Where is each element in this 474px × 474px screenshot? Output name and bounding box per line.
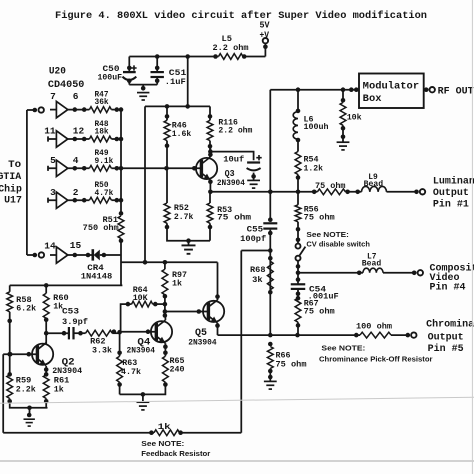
wire Q2 base <box>3 353 37 355</box>
svg-text:Output: Output <box>428 333 464 344</box>
svg-text:6.2k: 6.2k <box>16 304 36 314</box>
svg-text:Feedback Resistor: Feedback Resistor <box>141 449 210 458</box>
ground below 10uf <box>247 179 260 181</box>
wire Q5 emitter to chrominance row <box>217 323 219 335</box>
svg-text:2N3904: 2N3904 <box>127 345 156 355</box>
wire to summing bus <box>111 109 121 111</box>
wire rail drop to second rail <box>187 57 189 107</box>
wire left loop down to CR4 node <box>144 106 146 262</box>
svg-text:7: 7 <box>50 91 56 102</box>
wire chrominance row <box>218 334 361 336</box>
svg-text:R68: R68 <box>250 265 266 275</box>
svg-text:75 ohm: 75 ohm <box>217 213 251 223</box>
svg-text:18k: 18k <box>95 127 109 137</box>
wire Q4 collector <box>164 316 166 321</box>
svg-text:100 ohm: 100 ohm <box>356 321 392 331</box>
node RF OUT terminal <box>424 89 429 91</box>
wire buffer output row 6 <box>68 109 90 111</box>
svg-text:10k: 10k <box>347 113 362 123</box>
svg-text:Modulator: Modulator <box>363 80 419 92</box>
wire feedback tap <box>268 248 273 253</box>
wire to summing bus <box>111 199 121 201</box>
wire Q2 stage top rail <box>10 284 123 286</box>
svg-text:Chrominance Pick-Off Resistor: Chrominance Pick-Off Resistor <box>319 354 433 363</box>
wire to luminance terminal pin 1 <box>387 191 419 193</box>
svg-text:Bead: Bead <box>362 258 382 268</box>
wire to summing bus <box>111 167 121 169</box>
svg-text:15: 15 <box>70 240 82 251</box>
svg-text:U17: U17 <box>4 195 22 206</box>
svg-text:5: 5 <box>50 155 56 166</box>
wire node CR4/R97 row <box>121 261 217 263</box>
wire down to Q5 collector <box>217 262 219 300</box>
svg-text:Luminance: Luminance <box>433 176 474 188</box>
wire luminance row <box>210 191 317 193</box>
wire input stub pin 5 <box>48 166 56 171</box>
svg-text:Output: Output <box>433 188 469 199</box>
svg-text:2N3904: 2N3904 <box>188 338 217 348</box>
wire diode to bus node <box>100 254 122 256</box>
svg-text:75 ohm: 75 ohm <box>304 307 335 317</box>
ground below R59 R61 <box>27 406 32 411</box>
wire composite video row <box>296 271 301 276</box>
diode CR4 1N4148 <box>94 250 100 261</box>
wire to composite terminal pin 4 <box>383 272 416 274</box>
svg-text:See NOTE:: See NOTE: <box>141 439 184 448</box>
ground below 10k <box>337 141 350 143</box>
svg-text:11: 11 <box>44 126 56 137</box>
svg-text:Chrominance: Chrominance <box>426 319 474 331</box>
ground below R66 <box>264 380 277 382</box>
svg-text:750 ohm: 750 ohm <box>83 223 119 233</box>
svg-text:12: 12 <box>73 126 85 137</box>
svg-text:100uF: 100uF <box>98 72 123 82</box>
svg-text:Box: Box <box>363 94 382 105</box>
svg-text:2: 2 <box>73 187 79 198</box>
svg-text:2.2 ohm: 2.2 ohm <box>218 126 252 136</box>
svg-text:1k: 1k <box>54 385 64 395</box>
svg-text:6: 6 <box>73 91 79 102</box>
svg-text:See NOTE:: See NOTE: <box>306 230 349 239</box>
ground below C50 C51 <box>142 85 144 90</box>
svg-text:C53: C53 <box>62 306 79 316</box>
svg-text:4: 4 <box>73 155 79 166</box>
svg-text:75 ohm: 75 ohm <box>304 213 335 223</box>
svg-text:See NOTE:: See NOTE: <box>321 344 365 353</box>
svg-text:3.3k: 3.3k <box>92 346 112 356</box>
svg-text:14: 14 <box>44 241 56 252</box>
wire GTIA input rail <box>26 110 28 255</box>
svg-text:2N3904: 2N3904 <box>217 178 245 188</box>
svg-text:240: 240 <box>170 364 185 374</box>
svg-text:Chip: Chip <box>0 184 22 195</box>
svg-text:2.2 ohm: 2.2 ohm <box>213 43 249 53</box>
svg-text:Pin #4: Pin #4 <box>430 282 466 294</box>
svg-text:Pin #5: Pin #5 <box>428 343 464 355</box>
wire second rail <box>145 105 210 107</box>
wire Q3 collector <box>209 146 211 157</box>
wire from 5V terminal to rail <box>264 43 266 56</box>
svg-text:100uh: 100uh <box>304 122 329 132</box>
svg-text:U20: U20 <box>49 66 66 77</box>
svg-text:To: To <box>8 159 21 170</box>
wire Q4 emitter <box>164 343 166 356</box>
svg-text:1k: 1k <box>172 278 182 288</box>
svg-text:3k: 3k <box>252 275 263 285</box>
svg-text:3.9pf: 3.9pf <box>62 317 88 327</box>
svg-text:GTIA: GTIA <box>0 171 21 182</box>
wire feedback vertical <box>240 251 242 433</box>
wire buffer output row 12 <box>68 138 90 140</box>
wire C55 vertical drop <box>269 90 271 221</box>
wire main +5V rail <box>129 56 265 58</box>
wire Q3 base row from bus <box>121 167 201 169</box>
modulator box <box>359 74 424 109</box>
wire input stub pin 3 <box>48 198 56 203</box>
ground below R52 R53 <box>186 238 191 243</box>
ground below R63 R65 <box>141 392 146 397</box>
wire cap bottoms join <box>129 84 157 86</box>
wire to 10uf cap <box>210 152 253 161</box>
wire Q3 emitter to luminance row <box>209 180 211 192</box>
wire input stub pin 11 <box>48 136 56 141</box>
svg-text:4.7k: 4.7k <box>121 367 141 377</box>
wire summing bus vertical <box>120 110 122 214</box>
wire buffer output row 4 <box>68 167 90 169</box>
svg-text:10K: 10K <box>133 293 149 303</box>
svg-text:10uf: 10uf <box>223 155 244 165</box>
svg-text:2.2k: 2.2k <box>16 385 36 395</box>
scan artifact lines <box>0 397 474 403</box>
svg-text:Pin #1: Pin #1 <box>433 199 469 211</box>
wire modulator feed row <box>270 89 359 91</box>
svg-text:Figure 4. 800XL video circuit: Figure 4. 800XL video circuit after Supe… <box>55 10 427 22</box>
svg-text:2.7k: 2.7k <box>174 212 194 222</box>
svg-text:RF OUT: RF OUT <box>438 86 474 97</box>
svg-text:.1uF: .1uF <box>165 77 186 87</box>
wire to summing bus <box>111 138 121 140</box>
wire feedback to Q2 base <box>2 354 4 433</box>
wire buffer output row 2 <box>68 199 90 201</box>
wire Q4 base <box>121 331 157 333</box>
svg-text:3: 3 <box>50 187 56 198</box>
svg-text:2N3904: 2N3904 <box>52 366 82 376</box>
svg-text:100pf: 100pf <box>240 234 266 244</box>
wire Q5 base <box>165 311 209 313</box>
svg-text:1.2k: 1.2k <box>304 163 324 173</box>
svg-text:1.6k: 1.6k <box>172 129 192 139</box>
svg-text:75 ohm: 75 ohm <box>276 360 307 370</box>
svg-text:36k: 36k <box>95 97 109 107</box>
wire input from GTIA rail pin 7 <box>27 109 33 111</box>
svg-text:CD4050: CD4050 <box>48 80 85 91</box>
svg-text:CV disable switch: CV disable switch <box>306 239 370 248</box>
svg-text:1N4148: 1N4148 <box>81 271 113 281</box>
